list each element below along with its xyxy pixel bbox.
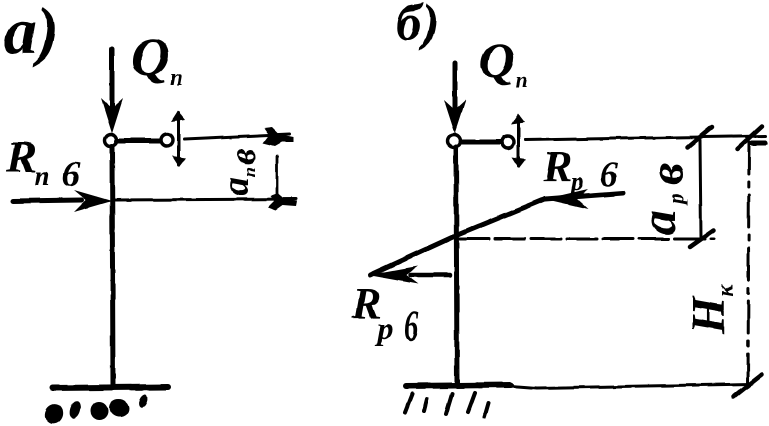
anchor tick at joint 2 (figure a) <box>177 113 180 165</box>
force Qp arrowhead (figure b) <box>444 100 466 134</box>
force R_pv arrow line <box>13 200 82 201</box>
svg-text:6: 6 <box>600 154 618 194</box>
svg-text:Qп: Qп <box>131 27 183 91</box>
ground hatch strokes (figure b) <box>405 394 412 412</box>
dash-dot dimension line H_k <box>748 142 749 390</box>
column (figure a) <box>112 146 113 388</box>
terminator slash at H_k bottom <box>734 375 762 397</box>
svg-text:р: р <box>374 310 393 346</box>
vertical dimension connector (figure a) <box>276 156 279 199</box>
link bar between joints (figure a) <box>117 139 161 144</box>
top dimension line (figure b) <box>525 136 766 140</box>
svg-text:арв: арв <box>630 163 694 235</box>
terminator slash at a_rv bottom <box>690 230 714 247</box>
lower dimension line a_pv (figure a) <box>115 199 296 200</box>
svg-text:6: 6 <box>404 302 419 351</box>
svg-text:6: 6 <box>62 154 80 194</box>
force Qp line (figure a) <box>110 49 115 115</box>
strut tail line upper <box>545 193 623 199</box>
force Qp line (figure b) <box>453 63 458 118</box>
upper dimension line a_pv (figure a) <box>184 134 290 139</box>
ground hatch dots (figure a) <box>42 401 67 426</box>
svg-text:б): б) <box>396 0 439 52</box>
diagonal strut line (figure b) <box>370 199 545 275</box>
svg-text:апв: апв <box>215 149 264 196</box>
vertical dimension line a_rv <box>700 140 701 238</box>
force R_pv arrowhead <box>74 190 112 212</box>
force R_rv arrowhead (upper, pointing left) <box>545 189 588 209</box>
pin joint circle 1 (figure a) <box>105 134 117 146</box>
bottom dimension line to H_k <box>537 384 752 388</box>
dashed level line a_rv (figure b) <box>459 238 714 241</box>
ground line (figure b) <box>406 385 511 386</box>
force R_rv arrowhead (lower) <box>368 266 418 284</box>
svg-text:п: п <box>34 161 50 192</box>
pin joint circle 2 (figure b) <box>502 136 514 148</box>
svg-text:R: R <box>5 131 37 182</box>
column (figure b) <box>456 147 457 385</box>
force Qp arrowhead (figure a) <box>101 98 123 133</box>
svg-text:R: R <box>542 142 572 191</box>
terminator slash at a_rv top <box>688 127 712 147</box>
terminator slash at H_k top <box>737 126 762 149</box>
pin joint circle 1 (figure b) <box>448 135 461 148</box>
pin joint circle 2 (figure a) <box>161 134 173 146</box>
svg-text:Qп: Qп <box>479 32 527 92</box>
ground line (figure a) <box>52 387 168 388</box>
upper dimension terminator (figure a) <box>263 127 294 146</box>
svg-text:а): а) <box>4 0 59 68</box>
force R_rv arrow line (lower, pointing left) <box>410 273 450 278</box>
anchor tick at joint 2 (figure b) <box>517 116 520 166</box>
lower dimension terminator (figure a) <box>268 193 297 210</box>
svg-text:Нк: Нк <box>682 284 739 335</box>
link bar between joints (figure b) <box>461 140 501 145</box>
